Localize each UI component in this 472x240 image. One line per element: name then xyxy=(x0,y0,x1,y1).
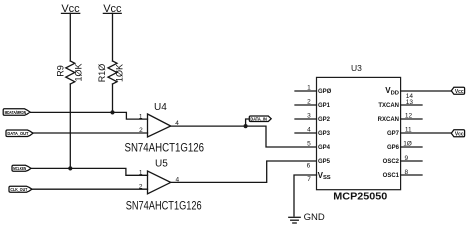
svg-text:9: 9 xyxy=(405,155,409,162)
svg-text:2: 2 xyxy=(139,183,143,190)
net flag Vcc (GP7 pin11) xyxy=(451,130,464,138)
junction dot R9/MCLKEN xyxy=(68,166,72,170)
svg-text:U3: U3 xyxy=(351,63,362,73)
pin 3 GP2 stub xyxy=(295,118,317,120)
svg-text:GP4: GP4 xyxy=(318,145,331,151)
svg-text:MDATA/MRDN: MDATA/MRDN xyxy=(5,110,27,115)
svg-text:RXCAN: RXCAN xyxy=(378,117,399,123)
pin 13 TXCAN stub xyxy=(401,104,422,106)
svg-text:7: 7 xyxy=(307,176,311,183)
svg-text:1: 1 xyxy=(139,170,143,177)
svg-text:6: 6 xyxy=(307,163,311,170)
svg-text:CLK_OUT: CLK_OUT xyxy=(10,187,27,192)
wire CLK_OUT net to U5 pin 2 xyxy=(32,188,148,190)
buffer U4 xyxy=(139,102,179,137)
svg-text:3: 3 xyxy=(307,113,311,120)
junction dot DATA_IN xyxy=(244,124,248,128)
resistor R10 xyxy=(97,61,125,84)
svg-text:13: 13 xyxy=(406,99,414,106)
wire MCLKEN net to U5 pin 1 xyxy=(31,168,148,175)
svg-text:MCP25050: MCP25050 xyxy=(333,192,387,203)
svg-text:GND: GND xyxy=(304,212,325,223)
svg-text:OSC2: OSC2 xyxy=(383,159,400,165)
pin 8 OSC1 stub xyxy=(401,174,422,176)
svg-text:R1Ø: R1Ø xyxy=(97,64,107,83)
svg-text:GP3: GP3 xyxy=(318,131,331,137)
pin 14 VDD wire to Vcc flag xyxy=(401,90,452,92)
junction dot R10/MDATA xyxy=(110,110,114,114)
svg-text:U4: U4 xyxy=(154,102,167,113)
power symbol Vcc (left) xyxy=(61,3,80,61)
svg-text:12: 12 xyxy=(405,113,413,120)
pin 1 GP0 stub xyxy=(295,90,317,92)
svg-text:1Ø: 1Ø xyxy=(403,141,412,148)
svg-text:Vcc: Vcc xyxy=(455,89,464,95)
svg-text:GP7: GP7 xyxy=(387,131,400,137)
svg-text:4: 4 xyxy=(307,127,311,134)
IC U3 MCP25050 body xyxy=(317,77,401,189)
net flag MDATA/MRDN xyxy=(3,109,30,116)
svg-text:2: 2 xyxy=(307,99,311,106)
buffer U5 xyxy=(139,159,180,194)
wire R9 bottom to MCLKEN net xyxy=(69,84,71,168)
pin 11 GP7 wire to Vcc flag xyxy=(401,132,452,134)
svg-text:SN74AHCT1G126: SN74AHCT1G126 xyxy=(125,143,205,155)
wire MDATA net to U4 pin 1 xyxy=(30,112,148,119)
svg-text:Vcc: Vcc xyxy=(455,132,464,138)
svg-text:4: 4 xyxy=(175,120,179,127)
svg-text:11: 11 xyxy=(405,127,412,134)
ground symbol xyxy=(289,217,300,223)
pin 10 GP6 stub xyxy=(401,146,422,148)
svg-text:4: 4 xyxy=(176,176,180,183)
svg-text:1ØK: 1ØK xyxy=(74,63,84,81)
svg-text:U5: U5 xyxy=(155,159,168,170)
svg-text:GP5: GP5 xyxy=(318,159,331,165)
svg-text:GP1: GP1 xyxy=(318,103,331,109)
pin 12 RXCAN stub xyxy=(401,118,422,120)
svg-text:MCLKEN: MCLKEN xyxy=(13,166,26,171)
power symbol Vcc (right) xyxy=(103,3,122,61)
svg-text:TXCAN: TXCAN xyxy=(378,103,399,109)
svg-text:SN74AHCT1G126: SN74AHCT1G126 xyxy=(126,201,202,213)
resistor R9 xyxy=(55,61,83,84)
wire U4 output to GP4 xyxy=(171,126,317,147)
svg-text:5: 5 xyxy=(307,141,311,148)
svg-text:OSC1: OSC1 xyxy=(383,173,400,179)
svg-text:DATA_IN: DATA_IN xyxy=(250,117,267,122)
svg-text:1: 1 xyxy=(139,113,143,120)
pin 2 GP1 stub xyxy=(295,104,317,106)
net flag CLK_OUT xyxy=(9,186,32,192)
net flag DATA_IN with leader xyxy=(246,116,272,126)
svg-text:1ØK: 1ØK xyxy=(115,64,125,82)
wire U5 output to GP5 xyxy=(171,161,317,182)
pin 9 OSC2 stub xyxy=(401,160,422,162)
svg-text:DATA_OUT: DATA_OUT xyxy=(7,131,28,136)
svg-text:GP2: GP2 xyxy=(318,117,331,123)
pin 4 GP3 stub xyxy=(295,132,317,134)
wire Vss pin 7 to ground xyxy=(294,175,317,216)
svg-text:GP6: GP6 xyxy=(387,145,400,151)
net flag MCLKEN xyxy=(12,165,31,171)
wire DATA_OUT net to U4 pin 2 xyxy=(33,132,148,134)
svg-text:8: 8 xyxy=(405,169,409,176)
svg-text:1: 1 xyxy=(307,85,311,92)
wire R10 bottom to MDATA net xyxy=(112,84,114,112)
svg-text:GPØ: GPØ xyxy=(318,89,332,95)
svg-text:R9: R9 xyxy=(55,65,65,77)
svg-text:2: 2 xyxy=(139,127,143,134)
net flag Vcc (VDD pin14) xyxy=(451,87,464,95)
net flag DATA_OUT xyxy=(6,130,33,137)
